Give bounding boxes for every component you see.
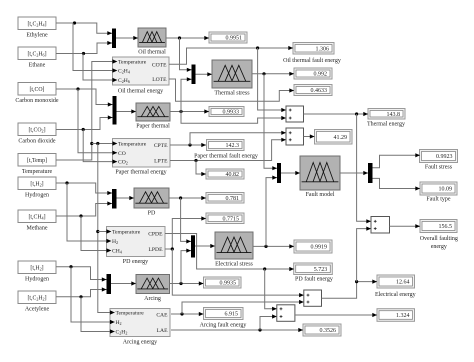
label Carbon monoxide: [15, 98, 58, 104]
display 0.9923 fault stress: [420, 150, 458, 163]
svg-text:Acetylene: Acetylene: [25, 307, 50, 313]
label Arcing fault energy: [200, 322, 247, 329]
source block Acetylene: [18, 291, 56, 304]
fuzzy block PD: [134, 188, 169, 208]
wire Ethylene branch to Oil thermal energy C2H4: [73, 23, 117, 73]
label Oil thermal energy: [118, 89, 163, 95]
wire Hydrogen2 branch to Arcing energy H2: [71, 267, 115, 324]
wire fault mux to Fault model: [281, 171, 300, 175]
wire COTE to display 1.306: [169, 46, 293, 64]
fuzzy block Fault model: [300, 156, 340, 190]
svg-text:Electrical stress: Electrical stress: [215, 262, 253, 268]
svg-text:6.915: 6.915: [225, 312, 239, 318]
label Acetylene: [25, 307, 50, 313]
wire Arcing branch to mux M5 input 2: [181, 249, 191, 284]
wire Methane to mux M4 input 2: [56, 201, 112, 217]
svg-text:CAE: CAE: [156, 312, 168, 318]
svg-text:CH4: CH4: [112, 249, 122, 255]
svg-text:0.992: 0.992: [314, 72, 328, 78]
svg-text:Overall faulting: Overall faulting: [420, 235, 458, 242]
svg-text:Oil thermal: Oil thermal: [138, 50, 166, 56]
label Hydrogen: [25, 193, 49, 199]
display 0.9919: [294, 240, 332, 253]
svg-text:Oil thermal energy: Oil thermal energy: [118, 89, 163, 95]
wire Ethylene to mux M1 input 1: [56, 21, 112, 35]
svg-text:Ethylene: Ethylene: [26, 33, 48, 39]
svg-text:Temperature: Temperature: [112, 230, 141, 236]
label Paper thermal energy: [115, 170, 166, 176]
display 0.9951: [209, 32, 247, 43]
svg-text:H2: H2: [112, 239, 118, 245]
svg-text:Carbon monoxide: Carbon monoxide: [15, 98, 58, 104]
svg-text:Methane: Methane: [27, 226, 48, 232]
svg-text:41.29: 41.29: [334, 135, 348, 141]
svg-text:5.723: 5.723: [314, 267, 328, 273]
display 0.7715: [206, 213, 244, 224]
svg-text:H2: H2: [116, 320, 122, 326]
wire Temperature trunk up to Oil thermal energy: [56, 59, 117, 160]
wire Carbon dioxide to mux M2 input 2: [56, 115, 113, 131]
wire CPDE branch to sum 1.324 input 1: [265, 269, 277, 311]
svg-text:40.82: 40.82: [226, 172, 240, 178]
sum block thermal energy: [286, 106, 304, 122]
svg-text:LAE: LAE: [157, 328, 168, 334]
source block Carbon monoxide: [18, 83, 56, 96]
mux M4 PD: [112, 189, 117, 209]
display 0.9933: [209, 107, 244, 117]
wire CPTE branch to sum 41.29 input 1: [190, 131, 286, 145]
mux M5 electrical stress: [191, 235, 195, 257]
svg-text:LPDE: LPDE: [149, 247, 164, 253]
wire Hydrogen branch to PD energy H2: [67, 183, 111, 243]
wire COTE branch to sum thermal input 1: [258, 48, 286, 112]
label Arcing energy: [123, 340, 157, 346]
svg-text:[t,CO]: [t,CO]: [30, 87, 45, 93]
svg-text:0.3526: 0.3526: [320, 328, 337, 334]
svg-text:Thermal energy: Thermal energy: [367, 122, 405, 128]
svg-text:LPTE: LPTE: [154, 159, 168, 165]
label Fault model: [306, 192, 335, 198]
label Arcing: [144, 296, 161, 302]
sum block overall faulting energy: [371, 217, 390, 234]
wire sum 41.29 to display: [304, 134, 315, 138]
source block Ethane: [18, 47, 56, 60]
wire Carbon monoxide to mux M2 input 1: [56, 87, 113, 106]
wire Ethane branch to Oil thermal energy C2H6: [83, 54, 117, 83]
label Fault type: [426, 196, 451, 202]
label Electrical energy: [375, 292, 416, 298]
display 156.5 overall: [420, 220, 457, 233]
wire CO branch to Paper thermal energy CO: [78, 89, 117, 155]
svg-text:1.324: 1.324: [396, 313, 410, 319]
wire overall sum to display 156.5: [390, 224, 421, 228]
svg-text:12.64: 12.64: [396, 280, 410, 286]
label Paper thermal: [136, 124, 170, 130]
svg-text:Oil thermal fault energy: Oil thermal fault energy: [283, 57, 341, 64]
display 6.915: [204, 308, 244, 320]
wire LPDE to display 0.7715: [165, 216, 206, 250]
wire Paper thermal branch to sum thermal input 2: [181, 112, 286, 124]
wire electrical sum to display 12.64: [322, 280, 378, 299]
wire Fault model to demux: [340, 171, 368, 175]
svg-text:energy: energy: [431, 244, 447, 250]
wire Arcing to display 0.9935: [169, 281, 204, 285]
fuzzy block Electrical stress: [215, 232, 253, 259]
wire Thermal stress branch to fault mux input 1: [264, 74, 277, 171]
wire CPDE to display 5.723: [165, 234, 294, 272]
label Overall faulting line1: [420, 235, 458, 242]
fuzzy block Paper thermal: [136, 103, 170, 121]
label PD energy: [123, 259, 148, 265]
source block Methane: [18, 210, 56, 223]
svg-text:Thermal stress: Thermal stress: [214, 91, 250, 97]
svg-text:[t,Temp]: [t,Temp]: [27, 158, 47, 164]
wire Electrical stress to display 0.9919: [253, 244, 294, 248]
svg-text:Paper thermal fault energy: Paper thermal fault energy: [194, 153, 258, 160]
svg-text:Temperature: Temperature: [22, 169, 53, 175]
wire Acetylene to mux M6 input 2: [56, 287, 107, 298]
label Hydrogen: [25, 277, 49, 283]
svg-text:Ethane: Ethane: [29, 63, 46, 69]
label Ethane: [29, 63, 46, 69]
label Ethylene: [26, 33, 48, 39]
subsystem Oil thermal energy: [113, 57, 170, 85]
wire Acetylene branch to Arcing energy C2H2: [81, 297, 115, 334]
svg-text:C2H6: C2H6: [118, 78, 130, 84]
wire CAE to display 6.915: [171, 312, 204, 316]
wire sum 1.324 to display: [295, 313, 377, 317]
wire LAE branch to sum 1.324 input 2: [260, 314, 277, 330]
svg-text:0.9923: 0.9923: [436, 154, 453, 160]
label Carbon dioxide: [18, 139, 55, 145]
svg-text:CPDE: CPDE: [148, 232, 163, 238]
fuzzy block Oil thermal: [138, 28, 166, 47]
source block Hydrogen: [18, 177, 56, 190]
display 40.82: [206, 169, 244, 179]
mux M1 oil thermal: [112, 29, 116, 49]
wire Temperature branch to PD energy: [98, 229, 111, 233]
svg-text:[t,CH4]: [t,CH4]: [28, 214, 45, 220]
wire CO2 branch to Paper thermal energy CO2: [83, 130, 117, 164]
wire Oil thermal to display 0.9951: [166, 36, 209, 40]
wire mux M3 to Thermal stress: [196, 72, 213, 76]
mux M3 thermal stress: [192, 65, 196, 85]
sum block 41.29: [286, 128, 304, 145]
wire Oil thermal branch to mux M3 input 1: [180, 38, 192, 72]
svg-text:Arcing: Arcing: [144, 296, 161, 302]
label Temperature: [22, 169, 53, 175]
wire Ethane to mux M1 input 2: [56, 41, 112, 55]
wire CAE branch to sum electrical input 2: [182, 300, 304, 314]
svg-text:0.9933: 0.9933: [223, 110, 240, 116]
svg-text:156.5: 156.5: [439, 224, 453, 230]
label Thermal stress: [214, 91, 250, 97]
svg-text:[t,C2H2]: [t,C2H2]: [27, 295, 46, 301]
wire mux M4 to PD: [117, 196, 135, 200]
svg-text:CO2: CO2: [118, 160, 128, 166]
label Oil thermal: [138, 50, 166, 56]
label Paper thermal fault energy: [194, 153, 258, 160]
svg-text:Paper thermal: Paper thermal: [136, 124, 170, 130]
wire PD branch to mux M5 input 1: [181, 198, 191, 244]
wire Hydrogen to mux M4 input 1: [56, 181, 112, 195]
fuzzy block Thermal stress: [212, 60, 252, 88]
svg-text:0.7715: 0.7715: [223, 216, 240, 222]
subsystem Paper thermal energy: [113, 139, 171, 168]
svg-text:0.4633: 0.4633: [311, 88, 328, 94]
label PD fault energy: [295, 276, 333, 283]
svg-text:PD fault energy: PD fault energy: [295, 276, 333, 283]
wire Hydrogen2 to mux M6 input 1: [56, 265, 107, 282]
wire Paper thermal to display 0.9933: [170, 109, 209, 113]
svg-text:0.781: 0.781: [226, 196, 240, 202]
source block Ethylene: [18, 17, 56, 30]
svg-text:0.9919: 0.9919: [311, 245, 328, 251]
subsystem PD energy: [107, 227, 166, 257]
wire mux M5 to Electrical stress: [195, 244, 215, 248]
svg-text:Carbon dioxide: Carbon dioxide: [18, 139, 55, 145]
wire LPTE branch to display 40.82: [196, 161, 206, 177]
svg-text:[t,C2H4]: [t,C2H4]: [27, 21, 46, 27]
svg-text:Fault model: Fault model: [306, 192, 335, 198]
wire demux to display 10.09: [373, 178, 421, 190]
svg-text:Temperature: Temperature: [118, 60, 147, 66]
sum block 1.324: [277, 305, 295, 322]
display 10.09 fault type: [420, 182, 457, 195]
source block Temperature: [18, 154, 56, 167]
display 12.64: [377, 275, 415, 288]
display 41.29: [315, 130, 353, 145]
source block Hydrogen 2: [18, 261, 56, 274]
svg-text:PD: PD: [148, 211, 156, 217]
label Methane: [27, 226, 48, 232]
svg-text:Electrical energy: Electrical energy: [375, 292, 416, 298]
display 1.324: [377, 309, 415, 322]
display 142.3: [207, 140, 245, 151]
wire Temperature trunk down: [96, 144, 114, 315]
svg-text:CO: CO: [118, 151, 126, 157]
wire Methane branch to PD energy CH4: [81, 216, 111, 253]
label Fault stress: [425, 164, 453, 170]
sum block electrical energy: [304, 290, 322, 306]
svg-text:Temperature: Temperature: [118, 142, 147, 148]
display 1.306: [293, 43, 334, 55]
display 0.781: [206, 193, 244, 204]
wire LAE to display 0.3526: [171, 328, 303, 332]
wire LPDE branch to sum electrical input 1: [172, 249, 303, 297]
svg-text:Arcing energy: Arcing energy: [123, 340, 157, 346]
wire sum thermal to display 143.8: [304, 112, 369, 116]
wire demux to display 0.9923: [373, 153, 421, 168]
mux M7 fault model: [277, 163, 281, 183]
wire LOTE to display 0.4633: [169, 79, 294, 101]
display 0.9935: [204, 277, 242, 288]
subsystem Arcing energy: [110, 309, 170, 337]
svg-text:Hydrogen: Hydrogen: [25, 277, 49, 283]
svg-text:1.306: 1.306: [316, 46, 330, 52]
label Electrical stress: [215, 262, 253, 268]
wire mux M6 to Arcing: [111, 281, 136, 285]
wire mux M2 to Paper thermal: [117, 109, 137, 113]
svg-text:0.9951: 0.9951: [226, 36, 243, 42]
svg-text:PD energy: PD energy: [123, 259, 148, 265]
svg-text:Temperature: Temperature: [116, 311, 145, 317]
wire CPTE to display 142.3: [170, 143, 206, 147]
svg-text:CPTE: CPTE: [154, 143, 168, 149]
wire LPTE to sum 41.29 input 2: [170, 138, 286, 162]
svg-text:[t,CO2]: [t,CO2]: [28, 127, 45, 133]
wire electrical energy branch to overall sum input 2: [357, 227, 371, 282]
display 143.8: [368, 109, 405, 120]
display 0.3526: [303, 324, 341, 336]
label PD: [148, 211, 156, 217]
label Thermal energy: [367, 122, 405, 128]
wire Paper thermal branch up to mux M3 input 2: [181, 77, 192, 111]
label Oil thermal fault energy: [283, 57, 341, 64]
source block Carbon dioxide: [18, 123, 56, 136]
svg-text:0.9935: 0.9935: [220, 281, 237, 287]
display 5.723: [294, 263, 333, 275]
wire Thermal stress to display 0.992: [252, 72, 294, 76]
mux M6 arcing: [107, 274, 112, 294]
svg-text:C2H2: C2H2: [116, 330, 128, 336]
wire thermal energy branch to overall sum input 1: [357, 114, 371, 223]
svg-text:Paper thermal energy: Paper thermal energy: [115, 170, 166, 176]
svg-text:C2H4: C2H4: [118, 69, 130, 75]
wire Temperature branch to Paper thermal energy: [92, 141, 117, 145]
svg-text:143.8: 143.8: [387, 112, 401, 118]
svg-text:Hydrogen: Hydrogen: [25, 193, 49, 199]
svg-text:10.09: 10.09: [439, 187, 453, 193]
svg-text:LOTE: LOTE: [152, 77, 167, 83]
svg-text:Fault stress: Fault stress: [425, 164, 453, 170]
svg-text:[t,H2]: [t,H2]: [30, 181, 43, 187]
svg-text:142.3: 142.3: [226, 143, 240, 149]
svg-text:Arcing fault energy: Arcing fault energy: [200, 322, 247, 329]
wire Electrical stress branch to fault mux input 2: [266, 176, 277, 247]
svg-text:[t,C2H6]: [t,C2H6]: [27, 51, 46, 57]
svg-text:[t,H2]: [t,H2]: [30, 265, 43, 271]
display 0.4633: [294, 85, 332, 96]
fuzzy block Arcing: [136, 275, 170, 294]
wire PD to display 0.781: [169, 196, 206, 200]
label Overall faulting line2: [431, 244, 447, 250]
svg-text:Fault type: Fault type: [426, 196, 451, 202]
demux fault outputs: [368, 163, 373, 183]
mux M2 paper thermal: [113, 96, 117, 125]
wire mux M1 to Oil thermal: [116, 36, 138, 40]
display 0.992: [294, 68, 332, 79]
svg-text:COTE: COTE: [152, 62, 167, 68]
